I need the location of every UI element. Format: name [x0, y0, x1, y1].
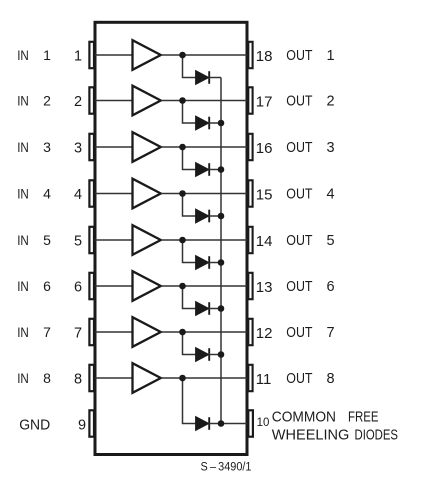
- node: rail junction at diode D6: [218, 305, 225, 312]
- svg-text:7: 7: [74, 326, 82, 342]
- pin 6: [89, 273, 94, 299]
- svg-text:IN: IN: [17, 93, 29, 109]
- pin 10: [248, 410, 253, 436]
- svg-text:6: 6: [326, 279, 334, 295]
- label OUT 7: [286, 325, 334, 341]
- wire: common free-wheeling rail (vertical): [220, 78, 222, 424]
- svg-text:4: 4: [43, 186, 51, 202]
- svg-text:WHEELING: WHEELING: [272, 427, 350, 444]
- wire: buffer A3 output to pin 16: [161, 146, 248, 148]
- label OUT 6: [286, 279, 334, 295]
- label OUT 3: [286, 140, 334, 156]
- buffer A1: [133, 40, 161, 70]
- node: buffer A6 output junction: [179, 283, 186, 290]
- svg-text:8: 8: [43, 370, 51, 386]
- label COMMON FREE WHEELING DIODES: [272, 409, 398, 444]
- label IN 6: [17, 278, 51, 294]
- svg-text:IN: IN: [17, 232, 29, 248]
- svg-text:IN: IN: [17, 324, 29, 340]
- svg-text:5: 5: [326, 233, 334, 249]
- svg-text:7: 7: [43, 324, 51, 340]
- node: rail junction at diode D2: [218, 120, 225, 127]
- svg-text:2: 2: [74, 94, 82, 110]
- wire: output junction down to diode D7 anode: [183, 332, 196, 355]
- svg-text:6: 6: [74, 280, 82, 296]
- wire: pin 7 to buffer A7 input: [95, 331, 133, 333]
- wire: output junction down to diode D6 anode: [183, 286, 196, 309]
- wire: diode D4 cathode to rail: [209, 215, 221, 217]
- wire: buffer A8 output to pin 11: [161, 377, 248, 379]
- diode D3: [196, 163, 210, 177]
- label OUT 1: [286, 48, 334, 64]
- wire: buffer A4 output to pin 15: [161, 193, 248, 195]
- pin 11: [248, 365, 252, 391]
- wire: buffer A5 output to pin 14: [161, 239, 248, 241]
- buffer A3: [133, 132, 161, 162]
- wire: output junction down to diode D5 anode: [183, 240, 196, 263]
- wire: diode D8 cathode to rail: [209, 423, 221, 425]
- svg-text:IN: IN: [17, 370, 29, 386]
- svg-text:1: 1: [74, 49, 82, 65]
- svg-text:1: 1: [326, 48, 334, 64]
- pin 3: [89, 134, 94, 160]
- svg-text:11: 11: [256, 371, 272, 388]
- wire: pin 1 to buffer A1 input: [95, 54, 133, 56]
- svg-text:OUT: OUT: [286, 325, 312, 341]
- svg-text:3: 3: [74, 141, 82, 157]
- wire: output junction down to diode D1 anode: [183, 55, 196, 78]
- label OUT 4: [286, 187, 334, 203]
- svg-text:16: 16: [256, 140, 273, 157]
- svg-text:OUT: OUT: [286, 94, 312, 110]
- diode D1: [196, 71, 210, 85]
- node: rail junction at diode D4: [218, 213, 225, 220]
- node: rail junction at diode D8: [218, 420, 225, 427]
- node: buffer A8 output junction: [179, 375, 186, 382]
- svg-text:8: 8: [326, 371, 334, 387]
- svg-text:15: 15: [256, 187, 273, 204]
- wire: output junction down to diode D3 anode: [183, 147, 196, 170]
- wire: pin 5 to buffer A5 input: [95, 239, 133, 241]
- wire: pin 3 to buffer A3 input: [95, 146, 133, 148]
- svg-text:4: 4: [74, 187, 82, 203]
- pin 14: [248, 227, 252, 253]
- svg-text:7: 7: [326, 325, 334, 341]
- pin 9: [89, 410, 94, 436]
- wire: diode D3 cathode to rail: [209, 169, 221, 171]
- pin 1: [89, 42, 94, 68]
- svg-text:5: 5: [43, 232, 51, 248]
- svg-text:DIODES: DIODES: [355, 427, 399, 444]
- wire: diode D5 cathode to rail: [209, 262, 221, 264]
- svg-text:COMMON: COMMON: [272, 409, 336, 426]
- svg-text:5: 5: [74, 234, 82, 250]
- pin 2: [89, 87, 94, 113]
- pin 17: [248, 87, 252, 113]
- IC body outline: [95, 22, 247, 454]
- svg-text:17: 17: [256, 94, 273, 111]
- pin 15: [248, 180, 252, 206]
- node: buffer A1 output junction: [179, 52, 186, 59]
- svg-text:IN: IN: [17, 278, 29, 294]
- svg-text:12: 12: [256, 325, 273, 342]
- node: buffer A4 output junction: [179, 190, 186, 197]
- node: buffer A5 output junction: [179, 237, 186, 244]
- label OUT 8: [286, 371, 334, 387]
- svg-text:GND: GND: [19, 418, 50, 434]
- node: rail junction at diode D3: [218, 166, 225, 173]
- diode D5: [196, 256, 210, 270]
- label IN 1: [17, 47, 51, 63]
- diode D8: [196, 417, 210, 431]
- wire: rail to pin 10: [221, 423, 248, 425]
- wire: buffer A7 output to pin 12: [161, 331, 248, 333]
- node: buffer A7 output junction: [179, 329, 186, 336]
- svg-text:4: 4: [326, 187, 334, 203]
- svg-text:18: 18: [256, 48, 273, 65]
- wire: output junction down to diode D4 anode: [183, 194, 196, 217]
- pin 16: [248, 134, 252, 160]
- svg-text:OUT: OUT: [286, 48, 312, 64]
- node: rail junction at diode D7: [218, 351, 225, 358]
- svg-text:IN: IN: [17, 186, 29, 202]
- buffer A7: [133, 317, 161, 347]
- label IN 7: [17, 324, 51, 340]
- svg-text:10: 10: [257, 417, 270, 429]
- svg-text:13: 13: [256, 279, 273, 296]
- svg-text:3: 3: [43, 139, 51, 155]
- node: buffer A2 output junction: [179, 97, 186, 104]
- label IN 3: [17, 139, 51, 155]
- buffer A8: [133, 363, 161, 393]
- label OUT 2: [286, 94, 334, 110]
- buffer A5: [133, 225, 161, 255]
- svg-text:OUT: OUT: [286, 279, 312, 295]
- diode D7: [196, 348, 210, 362]
- pin 12: [248, 319, 252, 345]
- svg-text:3: 3: [326, 140, 334, 156]
- pin 8: [89, 365, 94, 391]
- label IN 8: [17, 370, 51, 386]
- svg-text:8: 8: [74, 372, 82, 388]
- wire: output junction down to diode D8 anode: [183, 378, 196, 424]
- svg-text:S – 3490/1: S – 3490/1: [201, 462, 252, 474]
- label OUT 5: [286, 233, 334, 249]
- svg-text:IN: IN: [17, 47, 29, 63]
- label IN 4: [17, 186, 51, 202]
- wire: buffer A6 output to pin 13: [161, 285, 248, 287]
- label IN 5: [17, 232, 51, 248]
- wire: buffer A1 output to pin 18: [161, 54, 248, 56]
- svg-text:OUT: OUT: [286, 140, 312, 156]
- svg-text:OUT: OUT: [286, 187, 312, 203]
- svg-text:2: 2: [326, 94, 334, 110]
- wire: pin 4 to buffer A4 input: [95, 193, 133, 195]
- svg-text:14: 14: [256, 233, 273, 250]
- svg-text:9: 9: [78, 418, 86, 434]
- pin 5: [89, 227, 94, 253]
- svg-text:2: 2: [43, 93, 51, 109]
- diode D6: [196, 302, 210, 316]
- pin 18: [248, 42, 252, 68]
- wire: pin 8 to buffer A8 input: [95, 377, 133, 379]
- wire: pin 6 to buffer A6 input: [95, 285, 133, 287]
- buffer A6: [133, 271, 161, 301]
- wire: output junction down to diode D2 anode: [183, 101, 196, 124]
- wire: diode D6 cathode to rail: [209, 308, 221, 310]
- svg-text:1: 1: [43, 47, 51, 63]
- buffer A2: [133, 86, 161, 116]
- wire: buffer A2 output to pin 17: [161, 100, 248, 102]
- wire: diode D7 cathode to rail: [209, 354, 221, 356]
- svg-text:IN: IN: [17, 139, 29, 155]
- pin 4: [89, 180, 94, 206]
- pin 7: [89, 319, 94, 345]
- diode D4: [196, 209, 210, 223]
- svg-text:FREE: FREE: [348, 409, 379, 426]
- wire: diode D2 cathode to rail: [209, 122, 221, 124]
- diode D2: [196, 116, 210, 130]
- svg-text:6: 6: [43, 278, 51, 294]
- wire: pin 2 to buffer A2 input: [95, 100, 133, 102]
- svg-text:OUT: OUT: [286, 371, 312, 387]
- pin 13: [248, 273, 252, 299]
- node: buffer A3 output junction: [179, 144, 186, 151]
- svg-text:OUT: OUT: [286, 233, 312, 249]
- buffer A4: [133, 179, 161, 209]
- label IN 2: [17, 93, 51, 109]
- wire: diode D1 cathode to rail: [209, 77, 221, 79]
- node: rail junction at diode D5: [218, 259, 225, 266]
